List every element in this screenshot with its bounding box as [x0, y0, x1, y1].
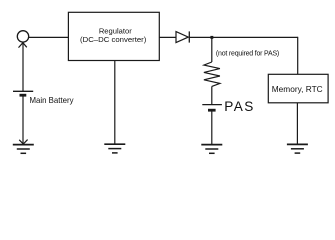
wire main battery to ground — [22, 95, 24, 144]
wire corner down to memory box — [297, 37, 299, 75]
wire regulator bottom to ground — [114, 61, 116, 145]
wire junction to resistor — [211, 37, 213, 62]
wire from J1 to regulator — [29, 36, 69, 38]
wire resistor to PAS battery — [211, 86, 213, 104]
regulator U1 box — [68, 12, 159, 60]
wire PAS battery to ground — [211, 110, 213, 144]
diode D1 — [176, 31, 189, 42]
ground (regulator) — [104, 144, 125, 153]
memory box U2 — [268, 74, 328, 103]
svg-text:PAS: PAS — [224, 99, 255, 114]
battery Main Battery cell — [13, 91, 33, 95]
resistor R1 — [204, 62, 220, 86]
connector J1 (open circle terminal) — [17, 31, 28, 42]
ground (main battery) — [13, 145, 34, 154]
arrow up into J1 — [19, 43, 27, 48]
svg-text:(not required for PAS): (not required for PAS) — [216, 50, 279, 57]
wire memory box to ground — [296, 103, 298, 145]
svg-text:(DC–DC converter): (DC–DC converter) — [80, 35, 147, 44]
battery PAS cell — [202, 105, 222, 111]
wire J1 to main battery — [22, 42, 24, 91]
wire regulator to diode — [159, 36, 176, 38]
ground (PAS) — [201, 145, 222, 154]
svg-text:Main Battery: Main Battery — [30, 96, 74, 105]
svg-text:Memory, RTC: Memory, RTC — [272, 84, 323, 94]
wire diode to corner — [189, 36, 297, 38]
ground (memory) — [287, 144, 308, 153]
arrow down into ground — [19, 140, 27, 144]
node junction dot — [210, 36, 213, 39]
